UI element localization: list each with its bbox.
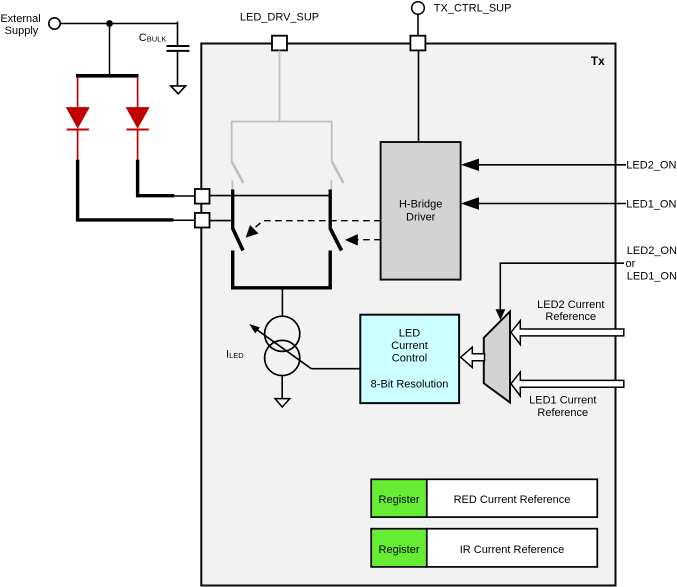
- diode D1 (red LED): [67, 108, 89, 128]
- svg-text:Control: Control: [392, 353, 427, 365]
- capacitor C_BULK plates: [166, 45, 189, 47]
- mux U1: [484, 312, 510, 403]
- svg-text:LED2_ON: LED2_ON: [626, 160, 676, 172]
- LED anode bus bar: [76, 74, 139, 78]
- wire thin to lower pin: [174, 219, 196, 221]
- wire red anode right: [137, 77, 139, 109]
- Tx block outline: [201, 44, 615, 586]
- svg-text:H-Bridge: H-Bridge: [399, 199, 442, 211]
- wire to capacitor top: [177, 22, 179, 46]
- gray switch stub right: [330, 180, 332, 190]
- svg-text:LED1_ON: LED1_ON: [627, 271, 677, 283]
- svg-text:LED1 Current: LED1 Current: [529, 395, 596, 407]
- wire bracket to current source: [281, 288, 283, 317]
- svg-text:Register: Register: [379, 494, 420, 506]
- wire D2 cathode to upper pin (thick): [138, 160, 175, 196]
- svg-text:Reference: Reference: [545, 311, 596, 323]
- LED1_ON signal wire: [477, 203, 626, 205]
- wire red anode left: [77, 77, 79, 109]
- TX_CTRL_SUP terminal circle: [412, 2, 425, 15]
- switch S2 blade: [331, 229, 342, 251]
- arrowhead current source: [249, 324, 260, 333]
- svg-text:LED2 Current: LED2 Current: [537, 299, 604, 311]
- arrowhead to S2: [346, 235, 357, 245]
- node junction dot: [106, 20, 113, 27]
- svg-text:Reference: Reference: [537, 407, 588, 419]
- wire current source to LED control: [311, 368, 360, 370]
- wire upper pin across to right switch: [210, 195, 331, 197]
- dashed control to S1: [251, 221, 381, 232]
- svg-text:LED_DRV_SUP: LED_DRV_SUP: [240, 11, 319, 23]
- LED2_ON signal wire: [477, 164, 626, 166]
- wire capacitor to ground: [177, 52, 179, 86]
- svg-text:CBULK: CBULK: [139, 32, 167, 44]
- svg-text:LED2_ON: LED2_ON: [627, 245, 677, 257]
- wire terminal to pin: [417, 14, 419, 36]
- switch output bracket: [233, 251, 331, 288]
- svg-text:or: or: [626, 258, 636, 270]
- wire junction down to LED bus bar: [109, 24, 111, 76]
- LED1 reference input arrow: [511, 372, 624, 396]
- LED2 reference input arrow: [511, 321, 624, 345]
- svg-text:Supply: Supply: [5, 25, 39, 37]
- wire thin to upper pin: [174, 195, 195, 197]
- IR Current Reference box: [427, 529, 598, 567]
- External Supply terminal: [49, 18, 60, 29]
- wire D1 cathode to lower pin (thick): [78, 160, 174, 220]
- gray switch rail: [232, 122, 332, 162]
- arrowhead LED1_ON: [461, 197, 479, 209]
- arrowhead to S1: [247, 226, 258, 237]
- dashed control to S2: [356, 239, 381, 241]
- svg-text:Driver: Driver: [406, 212, 436, 224]
- svg-text:RED Current Reference: RED Current Reference: [454, 494, 571, 506]
- pin LED lower (box left edge): [195, 213, 210, 228]
- gray switch blade left: [232, 161, 244, 183]
- wire lower pin to left switch: [210, 220, 233, 222]
- arrowhead mux select: [496, 309, 506, 320]
- svg-text:TX_CTRL_SUP: TX_CTRL_SUP: [434, 2, 512, 14]
- wire red cathode right: [137, 131, 139, 161]
- svg-text:8-Bit Resolution: 8-Bit Resolution: [371, 379, 449, 391]
- register IR box: [371, 529, 427, 567]
- ground symbol (CBULK): [171, 86, 186, 94]
- switch S1 pole (left): [231, 190, 234, 230]
- diode D2 (red LED): [127, 108, 149, 128]
- pin LED_DRV_SUP: [272, 36, 287, 51]
- svg-text:External: External: [0, 13, 40, 25]
- switch S2 pole (right): [329, 190, 332, 230]
- RED Current Reference box: [427, 479, 598, 517]
- pin LED upper (box left edge): [195, 189, 210, 204]
- svg-text:Register: Register: [379, 544, 420, 556]
- svg-text:ILED: ILED: [226, 349, 244, 361]
- LED Current Control block: [360, 315, 459, 403]
- mux select net wire: [500, 263, 624, 313]
- switch S1 blade: [233, 229, 243, 251]
- svg-text:Tx: Tx: [591, 54, 605, 68]
- current source I1 circles: [265, 316, 300, 351]
- H-Bridge Driver block: [381, 142, 461, 280]
- svg-text:LED1_ON: LED1_ON: [626, 198, 676, 210]
- wire current source to ground: [281, 376, 283, 399]
- svg-text:LED: LED: [399, 328, 420, 340]
- register RED box: [371, 479, 427, 517]
- gray switch stub left: [231, 180, 233, 190]
- ground symbol (ILED): [275, 399, 290, 407]
- svg-text:IR Current Reference: IR Current Reference: [460, 544, 565, 556]
- pin TX_CTRL_SUP: [410, 36, 425, 51]
- gray switch blade right: [332, 161, 344, 183]
- wire supply to CBULK: [61, 23, 178, 25]
- wire pin to H-Bridge Driver: [418, 50, 420, 141]
- mux output arrow: [461, 347, 485, 367]
- arrowhead LED2_ON: [461, 159, 479, 171]
- svg-text:Current: Current: [391, 340, 428, 352]
- wire red cathode left: [77, 131, 79, 161]
- gray wire LED_DRV_SUP into switches: [279, 50, 281, 121]
- current source arrow: [254, 328, 311, 369]
